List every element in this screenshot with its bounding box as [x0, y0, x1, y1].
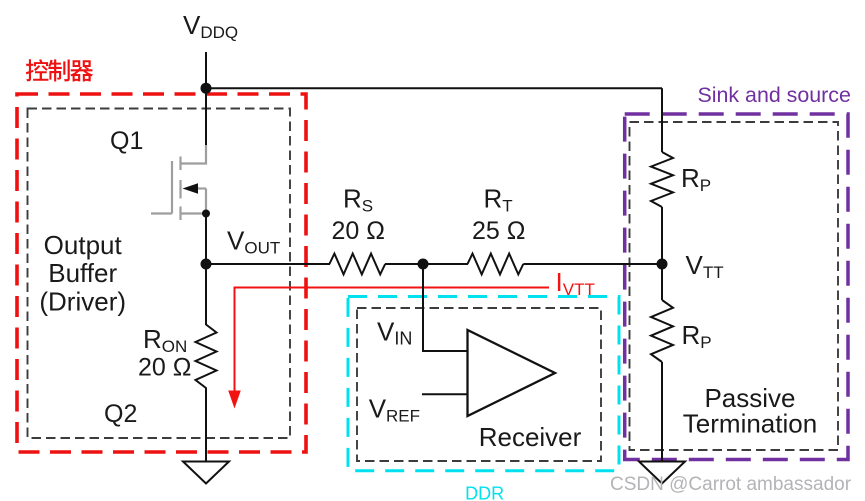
resistor RT	[468, 254, 524, 275]
gray dashed box (receiver)	[357, 308, 601, 461]
wire RP2 to ground	[661, 362, 663, 461]
IVTT arrowhead	[228, 391, 241, 409]
wire top right down to RP1	[661, 88, 663, 152]
node Q1 source	[202, 210, 210, 218]
node VTT	[657, 259, 668, 270]
wire to Q1 drain	[205, 88, 207, 146]
svg-text:Q1: Q1	[110, 127, 143, 155]
wire top horizontal	[206, 87, 662, 89]
label RP lower	[682, 320, 712, 352]
svg-text:25 Ω: 25 Ω	[472, 217, 525, 245]
wire RT to VTT	[523, 263, 662, 265]
label Passive Termination	[683, 383, 817, 439]
label VREF	[369, 394, 420, 426]
node VDDQ junction	[201, 83, 212, 94]
resistor RP (lower)	[651, 300, 673, 362]
svg-text:Termination: Termination	[683, 408, 817, 438]
wire VOUT down to RON	[205, 264, 207, 325]
label Q2	[104, 400, 137, 428]
svg-text:Output: Output	[44, 230, 123, 260]
wire VREF	[422, 393, 468, 395]
resistor RP (upper)	[651, 152, 673, 207]
label VIN	[377, 317, 412, 349]
wire VDDQ down	[205, 52, 207, 88]
svg-text:Q2: Q2	[104, 400, 137, 428]
label 控制器 (controller)	[26, 59, 93, 81]
transistor Q1 (MOSFET)	[151, 145, 206, 220]
wire RS to RT	[385, 263, 468, 265]
purple dashed box (sink and source)	[625, 114, 848, 460]
wire RON to ground	[205, 388, 207, 462]
label RP upper	[681, 163, 711, 195]
wire RP1 to VTT	[661, 207, 663, 264]
ground (left)	[183, 462, 229, 484]
resistor RS	[329, 254, 385, 275]
red dashed box (controller)	[17, 94, 306, 452]
label VOUT	[227, 226, 280, 258]
ground (right)	[639, 462, 685, 484]
gray dashed box (passive termination)	[630, 122, 839, 450]
svg-text:CSDN @Carrot ambassador: CSDN @Carrot ambassador	[610, 474, 852, 495]
gray dashed box (output buffer)	[28, 109, 291, 439]
svg-text:(Driver): (Driver)	[39, 286, 126, 316]
label DDR	[465, 484, 504, 501]
current path IVTT (red)	[235, 288, 550, 399]
svg-text:Receiver: Receiver	[479, 422, 582, 452]
label Sink and source	[698, 83, 851, 107]
label RS value	[332, 184, 385, 246]
node VIN junction	[418, 259, 429, 270]
resistor RON	[196, 325, 217, 389]
label VDDQ	[183, 10, 238, 42]
svg-text:Sink and source: Sink and source	[698, 83, 851, 107]
wire VOUT to RS	[206, 263, 330, 265]
svg-text:20 Ω: 20 Ω	[332, 217, 385, 245]
Q1 body arrow	[183, 183, 199, 194]
label RON value	[138, 324, 191, 382]
label VTT	[686, 250, 724, 282]
wire VTT to RP2	[661, 264, 663, 300]
label RT value	[472, 184, 525, 246]
op-amp receiver triangle	[468, 330, 556, 416]
svg-text:DDR: DDR	[465, 484, 504, 501]
wire Q1 source to VOUT	[205, 214, 207, 265]
label Output Buffer (Driver)	[39, 230, 126, 316]
label IVTT	[556, 267, 595, 299]
svg-text:20 Ω: 20 Ω	[138, 354, 191, 382]
label Receiver	[479, 422, 582, 452]
watermark	[610, 474, 852, 495]
svg-text:Buffer: Buffer	[48, 258, 117, 288]
node VOUT	[201, 259, 212, 270]
label Q1	[110, 127, 143, 155]
wire VIN down and right	[423, 264, 467, 351]
cyan dashed box (DDR chip)	[348, 297, 619, 471]
